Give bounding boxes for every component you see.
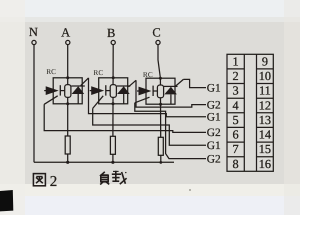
scan speck [189,189,191,191]
svg-text:8: 8 [233,157,239,171]
svg-text:RC: RC [46,67,56,76]
load resistor RL2 [110,136,115,162]
svg-text:RC: RC [143,70,153,79]
svg-text:5: 5 [233,113,239,127]
svg-text:G1: G1 [207,140,221,152]
wire N vertical [33,45,35,163]
wire gate G1 row3 (from V6) [183,79,206,87]
thyristor V4 (module B right) [117,86,131,104]
svg-text:N: N [29,25,38,39]
thyristor V5 (module C left) [137,86,157,96]
svg-text:G1: G1 [207,82,221,94]
snubber RC module C [157,85,163,98]
scan artifact black square [0,190,13,211]
junction dots bus [66,161,162,164]
thyristor V1 (module A left) [44,85,64,95]
module C box [146,78,175,104]
junction dots module C [159,77,162,106]
svg-text:G2: G2 [207,99,221,111]
svg-text:6: 6 [233,128,239,142]
module A box [53,78,82,104]
svg-text:13: 13 [259,113,271,127]
svg-text:7: 7 [233,142,239,156]
svg-text:16: 16 [259,157,271,171]
terminal numbers 9-16 [259,54,271,170]
thyristor V6 (module C right) [164,86,178,104]
svg-text:G2: G2 [207,127,221,139]
terminal block left column [227,54,244,171]
wire gate G2 row6 (from V1) [44,104,206,132]
gate lead V5-C [135,97,150,103]
terminal A [61,26,70,45]
terminal block right column [257,54,274,171]
svg-text:C: C [152,26,160,40]
load resistor RL3 [158,137,163,162]
gate lead V2-A [81,78,89,86]
junction dots module A [66,76,69,105]
wire gate G2 row8 (from V5) [135,103,206,159]
wire phase C [158,45,161,138]
load resistor RL1 [65,136,70,162]
wire gate G1 row5 (from V2) [89,78,207,117]
gate lead V4-B [129,80,137,87]
caption figure 2 (drawn glyph tu) [33,174,45,186]
svg-text:12: 12 [259,98,271,112]
svg-text:14: 14 [259,128,271,142]
snubber RC module A [65,85,71,98]
wire phase A [67,45,69,136]
svg-text:1: 1 [233,54,239,68]
terminal numbers 1-8 [233,54,239,170]
wire bottom bus [34,161,174,163]
wire gate G1 row7 (from V3) [93,108,206,145]
svg-text:15: 15 [259,142,271,156]
svg-text:2: 2 [50,174,58,190]
svg-text:G1: G1 [207,112,221,124]
junction dots module B [112,76,115,105]
wire phase B [112,45,114,137]
gate lead V1-A [44,96,58,105]
svg-text:9: 9 [262,54,268,68]
wire gate G2 row4 (from V4) [136,80,206,107]
terminal N [29,25,38,44]
terminal C [152,26,160,45]
caption load (drawn glyph fu) [100,172,109,185]
svg-text:G2: G2 [207,153,221,165]
thyristor V3 (module B left) [90,85,111,95]
snubber RC module B [110,85,116,98]
thyristor V2 (module A right) [71,86,85,104]
svg-text:3: 3 [233,84,239,98]
svg-text:RC: RC [93,68,103,77]
terminal B [107,26,115,45]
gate lead V3-B [93,96,104,109]
module B box [99,78,128,104]
terminal block outline [227,54,273,171]
gate lead V6-C [176,79,184,86]
svg-text:B: B [107,26,115,40]
svg-text:4: 4 [233,98,239,112]
svg-text:10: 10 [259,69,271,83]
svg-text:A: A [61,26,70,40]
svg-text:2: 2 [233,69,239,83]
caption load (drawn glyph zai) [112,171,127,184]
svg-text:11: 11 [259,84,271,98]
